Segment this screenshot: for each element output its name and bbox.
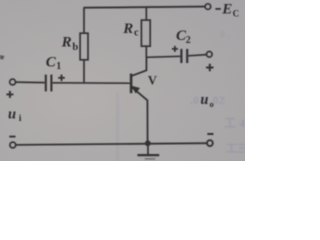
svg-text:u: u	[8, 107, 16, 123]
svg-text:0 .: 0 .	[220, 30, 231, 41]
svg-text:E: E	[221, 2, 232, 18]
svg-text:b: b	[72, 42, 78, 53]
svg-text:o: o	[210, 99, 214, 109]
svg-text:工三4: 工三4	[226, 142, 245, 155]
svg-text:1: 1	[56, 61, 61, 72]
svg-text:2: 2	[186, 35, 191, 46]
svg-text:c: c	[134, 27, 139, 38]
svg-text:R: R	[61, 34, 72, 50]
svg-text:u: u	[200, 92, 208, 108]
svg-text:i: i	[19, 114, 22, 124]
svg-text:工 4: 工 4	[224, 116, 245, 130]
svg-text:R: R	[122, 21, 133, 37]
svg-text:C: C	[233, 9, 240, 19]
svg-text:V: V	[148, 74, 157, 88]
svg-text:C: C	[46, 54, 57, 70]
